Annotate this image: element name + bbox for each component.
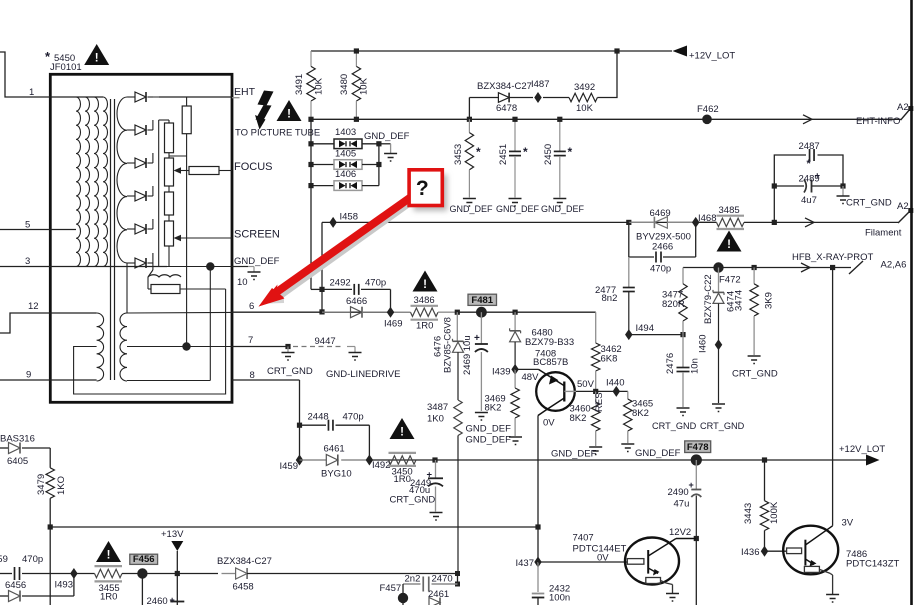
svg-text:3443: 3443 — [743, 503, 754, 524]
svg-text:3: 3 — [25, 256, 30, 267]
junction — [354, 117, 359, 122]
svg-text:6405: 6405 — [7, 456, 28, 467]
warning triangle (F472) — [717, 231, 742, 252]
svg-text:12V2: 12V2 — [669, 527, 691, 538]
svg-text:PDTC143ZT: PDTC143ZT — [846, 559, 900, 570]
svg-text:3K9: 3K9 — [764, 292, 775, 309]
svg-text:GND_DEF: GND_DEF — [635, 448, 681, 459]
F457 node — [402, 584, 404, 605]
svg-text:0V: 0V — [597, 553, 609, 564]
svg-text:1R0: 1R0 — [100, 592, 117, 603]
pin6 row to 3462 — [457, 311, 595, 313]
transformer T5450 outline — [50, 74, 232, 402]
arrow +12V_LOT (bottom) — [866, 455, 880, 466]
svg-text:2448: 2448 — [308, 412, 329, 423]
spark gap left rail — [310, 119, 312, 289]
red question box — [414, 175, 448, 212]
svg-text:7407: 7407 — [573, 533, 594, 544]
sheet connector A2 (EHT-INFO) — [901, 109, 911, 121]
svg-text:+12V_LOT: +12V_LOT — [839, 444, 885, 455]
svg-text:F481: F481 — [471, 295, 493, 306]
svg-text:6478: 6478 — [496, 103, 517, 114]
diode 6456 — [0, 595, 9, 597]
resistor 3485 — [696, 221, 717, 223]
row to 2470 — [247, 573, 458, 575]
svg-text:+12V_LOT: +12V_LOT — [689, 51, 735, 62]
gnd-def tap wire — [167, 266, 232, 268]
svg-text:?: ? — [416, 177, 429, 200]
svg-text:CRT_GND: CRT_GND — [846, 198, 892, 209]
filament wire right — [774, 221, 898, 223]
svg-text:3491: 3491 — [294, 74, 305, 95]
primary winding — [50, 96, 103, 98]
svg-text:Filament: Filament — [865, 228, 902, 239]
svg-text:*: * — [476, 145, 481, 159]
7486 collector wire — [832, 268, 834, 526]
resistor 3462 6K8 — [595, 312, 597, 343]
svg-text:3479: 3479 — [36, 474, 47, 495]
node I469 — [387, 307, 395, 318]
junction — [432, 457, 437, 462]
svg-text:GND_DEF: GND_DEF — [466, 424, 512, 435]
CRT_GND (pin7) — [285, 344, 290, 349]
svg-text:3474: 3474 — [734, 290, 745, 311]
resistor 3453 — [468, 119, 470, 132]
EHT rectifier diodes — [127, 96, 135, 98]
EHT bottom winding — [148, 275, 181, 277]
svg-text:!: ! — [107, 550, 111, 562]
svg-text:8K2: 8K2 — [570, 413, 587, 424]
svg-text:BC857B: BC857B — [533, 357, 568, 368]
svg-text:GND_DEF: GND_DEF — [551, 449, 597, 460]
pin 1 wire — [0, 52, 50, 97]
node 50V junction — [593, 389, 598, 394]
pin 5 wire — [0, 229, 76, 231]
F472 node — [713, 262, 723, 272]
diode 6458 BZX384-C27 — [218, 573, 236, 575]
node I459 — [296, 455, 304, 466]
capacitor 2459 470p — [0, 573, 12, 575]
svg-text:!: ! — [727, 239, 731, 251]
main bus (EHT-INFO) — [311, 118, 901, 120]
EHT output wire — [159, 96, 232, 98]
svg-text:I469: I469 — [384, 319, 403, 330]
junction — [308, 141, 313, 146]
svg-text:10K: 10K — [359, 77, 370, 95]
svg-text:HFB_X-RAY-PROT: HFB_X-RAY-PROT — [792, 252, 873, 263]
node I460 — [715, 339, 723, 350]
svg-text:8: 8 — [250, 370, 255, 381]
svg-text:GND_DEF: GND_DEF — [466, 435, 512, 446]
screen wiper — [174, 235, 182, 241]
pin 6 interior wire — [127, 311, 232, 314]
transistor 7407 PDTC144ET — [625, 538, 679, 585]
capacitor 2476 10n — [682, 335, 684, 367]
resistor 3469 8K2 — [514, 369, 516, 388]
capacitor 2469 10u — [480, 312, 482, 344]
svg-text:1R0: 1R0 — [416, 321, 433, 332]
diode 6405 BAS316 — [0, 447, 9, 449]
warning triangle (3455) — [96, 541, 121, 562]
CRT_GND (6474) — [718, 345, 720, 403]
svg-text:6466: 6466 — [346, 296, 367, 307]
junction — [626, 220, 631, 225]
bleeder resistor top — [182, 106, 191, 134]
svg-text:GND_DEF: GND_DEF — [450, 204, 494, 214]
svg-text:6K8: 6K8 — [601, 354, 618, 365]
pin 12 wire — [0, 313, 97, 333]
svg-text:3487: 3487 — [427, 402, 448, 413]
arrow +12V_LOT — [673, 46, 688, 57]
spark gap 1406 — [311, 185, 334, 187]
12V2 junction — [694, 536, 699, 541]
gnd row riser — [209, 267, 211, 381]
transistor 7408 BC857B — [515, 368, 538, 370]
node I436 — [761, 546, 769, 557]
svg-text:!: ! — [400, 427, 404, 439]
resistor 3474 3K9 — [752, 265, 757, 270]
svg-text:GND_DEF: GND_DEF — [234, 256, 280, 267]
svg-text:1: 1 — [29, 87, 34, 98]
svg-text:CRT_GND: CRT_GND — [652, 421, 697, 431]
junction — [354, 48, 359, 53]
resistor 3443 100K — [762, 457, 767, 462]
svg-text:BYG10: BYG10 — [321, 469, 352, 480]
resistor 3477 820R — [682, 268, 684, 284]
svg-text:3486: 3486 — [414, 295, 435, 306]
svg-text:GND-LINEDRIVE: GND-LINEDRIVE — [326, 369, 400, 380]
transistor 7486 PDTC143ZT — [765, 550, 787, 552]
svg-text:CRT_GND: CRT_GND — [267, 366, 313, 377]
svg-text:I439: I439 — [492, 367, 511, 378]
svg-text:+: + — [474, 333, 480, 344]
svg-text:5: 5 — [25, 220, 30, 231]
svg-text:+: + — [689, 480, 694, 490]
svg-text:2490: 2490 — [668, 487, 689, 498]
svg-text:BZX79-C22: BZX79-C22 — [703, 274, 714, 324]
svg-text:470p: 470p — [650, 264, 671, 275]
GND-LINEDRIVE ground — [347, 346, 355, 348]
resistor 3479 1K0 — [49, 448, 51, 468]
svg-text:100n: 100n — [549, 593, 570, 604]
pin 6 row wire — [232, 311, 411, 313]
diode 6466 — [322, 311, 351, 313]
svg-text:I436: I436 — [741, 547, 760, 558]
svg-text:I458: I458 — [340, 212, 359, 223]
interior loop wire — [74, 289, 226, 394]
svg-text:F462: F462 — [697, 104, 719, 115]
svg-text:1K0: 1K0 — [427, 414, 444, 425]
F456 node — [137, 568, 147, 578]
svg-text:2469 10u: 2469 10u — [462, 335, 473, 375]
svg-text:470p: 470p — [343, 412, 364, 423]
resistor 3455 1R0 — [74, 573, 95, 575]
svg-text:I437: I437 — [516, 558, 535, 569]
svg-text:6458: 6458 — [233, 582, 254, 593]
svg-text:CRT_GND: CRT_GND — [732, 369, 778, 380]
svg-text:1403: 1403 — [335, 127, 356, 138]
node pin7 — [182, 342, 190, 350]
zener 6480 BZX79-B33 — [514, 312, 516, 331]
svg-text:+13V: +13V — [161, 529, 184, 540]
svg-text:10K: 10K — [314, 77, 325, 95]
svg-text:470p: 470p — [22, 554, 43, 565]
svg-text:I440: I440 — [606, 378, 625, 389]
svg-text:*: * — [807, 158, 812, 170]
focus/screen divider chain — [165, 123, 174, 153]
svg-text:*: * — [523, 145, 528, 159]
cap 2448 branch — [297, 423, 302, 428]
svg-text:!: ! — [95, 53, 99, 65]
resistor 3492 — [543, 97, 569, 99]
node I468 — [692, 217, 700, 228]
capacitor 2460 — [170, 601, 184, 603]
spark gap ground — [379, 143, 391, 145]
7408 collector wire — [537, 416, 539, 528]
svg-text:1R0: 1R0 — [394, 474, 411, 485]
svg-text:7: 7 — [248, 335, 253, 346]
junction — [308, 117, 313, 122]
svg-text:1KO: 1KO — [56, 476, 67, 495]
capacitor 2449 470u — [435, 460, 437, 478]
svg-text:8K2: 8K2 — [485, 403, 502, 414]
diode 6478 BZX384-C27 — [468, 98, 470, 120]
svg-text:2492: 2492 — [330, 278, 351, 289]
svg-text:6456: 6456 — [5, 580, 26, 591]
pin 3 wire — [0, 266, 167, 268]
F481 node — [476, 307, 487, 318]
capacitor 2466 470p — [628, 222, 630, 257]
svg-text:470p: 470p — [365, 278, 386, 289]
junction — [557, 117, 562, 122]
focus wiper — [174, 167, 182, 173]
svg-text:EHT: EHT — [234, 86, 256, 98]
svg-text:BZX79-B33: BZX79-B33 — [525, 337, 574, 348]
+13V feed — [171, 541, 183, 551]
svg-text:459: 459 — [0, 554, 8, 565]
resistor 3487 1K0 — [454, 400, 462, 436]
svg-text:I460: I460 — [698, 335, 709, 354]
svg-text:I493: I493 — [55, 580, 74, 591]
svg-text:3485: 3485 — [719, 205, 740, 216]
svg-text:A2: A2 — [897, 102, 909, 113]
sheet connector A2,A6 — [849, 261, 863, 274]
svg-text:BZX384-C27: BZX384-C27 — [477, 81, 532, 92]
svg-text:10K: 10K — [576, 103, 594, 114]
capacitor 2461 2n2 — [403, 583, 421, 585]
svg-text:8n2: 8n2 — [602, 293, 618, 304]
pin 7 wire — [232, 346, 288, 348]
junction — [319, 309, 324, 314]
svg-text:3V: 3V — [842, 518, 854, 529]
junction — [614, 48, 619, 53]
svg-text:48V: 48V — [522, 372, 540, 383]
pin 7 interior wire — [127, 346, 232, 348]
node I440 — [596, 390, 628, 392]
diode 6451 (partial) — [429, 598, 440, 608]
node I493 — [70, 568, 78, 579]
junction — [467, 117, 472, 122]
cap 2492 branch — [322, 288, 352, 290]
capacitor 2489 4u7 — [774, 185, 804, 187]
svg-text:4u7: 4u7 — [801, 195, 817, 206]
capacitor 2490 47u — [695, 460, 697, 490]
svg-text:6469: 6469 — [650, 208, 671, 219]
svg-text:9: 9 — [26, 370, 31, 381]
capacitor 2487 — [774, 155, 806, 186]
I437 to 7407 base — [538, 561, 627, 563]
svg-text:RES: RES — [594, 392, 605, 412]
svg-text:F456: F456 — [133, 554, 155, 565]
capacitor 2450 — [559, 119, 561, 151]
F462 node — [702, 115, 712, 125]
svg-text:GND_DEF: GND_DEF — [541, 204, 585, 214]
zener 6476 BZV85-C6V8 — [456, 312, 458, 341]
bottom +12V rail — [369, 459, 866, 461]
svg-text:I487: I487 — [531, 79, 550, 90]
lightning bolt (to picture tube) — [258, 91, 274, 106]
warning triangle (3486) — [413, 271, 438, 292]
pin 8 wire — [232, 379, 300, 381]
svg-text:SCREEN: SCREEN — [234, 229, 280, 241]
lower primary winding — [97, 313, 104, 381]
capacitor 2451 — [514, 119, 516, 151]
svg-text:GND_DEF: GND_DEF — [364, 131, 410, 142]
svg-text:JF0101: JF0101 — [50, 62, 82, 73]
CRT_GND (2489) — [842, 186, 844, 196]
svg-text:FOCUS: FOCUS — [234, 161, 273, 173]
warning triangle (picture tube) — [277, 100, 302, 121]
svg-text:BZX384-C27: BZX384-C27 — [217, 556, 272, 567]
zener 6474 BZX79-C22 — [718, 268, 720, 293]
lower secondary winding — [120, 313, 127, 381]
svg-text:820R: 820R — [662, 299, 685, 310]
capacitor 2470 label — [457, 574, 459, 585]
svg-text:!: ! — [287, 109, 291, 121]
HFB wire — [683, 267, 851, 269]
resistor 3491 — [310, 51, 312, 66]
x-ray rail — [48, 524, 53, 529]
red arrow shadow — [280, 201, 414, 297]
svg-text:I494: I494 — [636, 323, 655, 334]
svg-text:3480: 3480 — [339, 74, 350, 95]
svg-text:TO PICTURE TUBE: TO PICTURE TUBE — [235, 128, 320, 139]
spark gap right rail — [378, 144, 380, 186]
resistor 3450 1R0 — [389, 456, 417, 464]
node I437 — [537, 527, 539, 562]
chevron on bus — [803, 115, 812, 124]
node I492 — [366, 455, 374, 466]
svg-text:2476: 2476 — [665, 353, 676, 374]
svg-text:2466: 2466 — [652, 242, 673, 253]
red arrow — [274, 193, 416, 297]
top bus +12V_LOT — [311, 50, 672, 52]
pin 10 ground — [232, 266, 248, 268]
svg-text:BZV85-C6V8: BZV85-C6V8 — [443, 317, 454, 373]
svg-text:47u: 47u — [674, 499, 690, 510]
resistor 3480 — [355, 51, 357, 66]
svg-text:3492: 3492 — [574, 82, 595, 93]
svg-text:6461: 6461 — [324, 444, 345, 455]
svg-text:GND_DEF: GND_DEF — [496, 204, 540, 214]
svg-text:BAS316: BAS316 — [0, 434, 35, 445]
warning triangle (transformer) — [84, 44, 109, 65]
svg-text:I459: I459 — [280, 461, 299, 472]
svg-text:+: + — [815, 171, 821, 182]
dashed net 9447 — [293, 346, 341, 348]
node I458 — [329, 217, 337, 228]
svg-text:10n: 10n — [690, 358, 701, 374]
capacitor 2477 8n2 — [628, 257, 630, 288]
diode 6469 BYV29X-500 — [654, 217, 667, 229]
resistor 3460 8K2 — [595, 391, 597, 402]
capacitor 2432 100n — [537, 562, 539, 592]
resistor 3486 1R0 — [394, 311, 411, 313]
node I487 — [534, 92, 542, 103]
F456 label — [130, 554, 158, 564]
svg-text:2470: 2470 — [432, 574, 453, 585]
svg-text:EHT-INFO: EHT-INFO — [856, 116, 900, 127]
EHT secondary winding — [117, 97, 127, 263]
svg-text:2n2: 2n2 — [405, 574, 421, 585]
F478 node — [691, 454, 702, 465]
svg-text:F478: F478 — [687, 442, 709, 453]
svg-text:2460: 2460 — [147, 596, 168, 605]
node I439 — [511, 364, 518, 375]
svg-text:10: 10 — [237, 277, 248, 288]
core — [110, 99, 112, 380]
svg-text:12: 12 — [28, 301, 39, 312]
svg-text:6: 6 — [249, 301, 254, 312]
svg-text:1406: 1406 — [335, 169, 356, 180]
junction — [512, 117, 517, 122]
diode 6461 BYG10 — [300, 459, 327, 461]
spark gap 1403 — [311, 143, 334, 145]
node (gnd row) — [206, 262, 214, 270]
sheet connector A2 (Filament) — [898, 211, 911, 224]
svg-text:8K2: 8K2 — [632, 408, 649, 419]
filament wire — [322, 221, 717, 223]
wire 2487 block to filament — [773, 186, 775, 222]
svg-text:9447: 9447 — [315, 336, 336, 347]
F481 label — [468, 294, 497, 305]
wire I458 drop — [321, 222, 323, 289]
svg-text:0V: 0V — [543, 418, 555, 429]
svg-text:1405: 1405 — [335, 149, 356, 160]
svg-text:2487: 2487 — [799, 141, 820, 152]
svg-text:I492: I492 — [372, 460, 391, 471]
svg-text:3453: 3453 — [453, 144, 464, 165]
svg-text:2451: 2451 — [498, 144, 509, 165]
svg-text:A2: A2 — [897, 201, 909, 212]
svg-text:CRT_GND: CRT_GND — [700, 421, 745, 431]
svg-text:CRT_GND: CRT_GND — [390, 495, 436, 506]
svg-text:!: ! — [423, 279, 427, 291]
winding bottom wire — [127, 380, 210, 382]
svg-text:F457: F457 — [380, 583, 402, 594]
svg-text:+: + — [170, 595, 175, 605]
svg-text:A2,A6: A2,A6 — [881, 260, 907, 271]
resistor 3465 8K2 — [627, 391, 629, 399]
svg-text:100K: 100K — [769, 501, 780, 524]
warning triangle (3450) — [390, 418, 415, 439]
svg-text:*: * — [568, 145, 573, 159]
F478 label — [685, 441, 711, 453]
spark gap 1405 — [311, 164, 334, 166]
svg-text:50V: 50V — [577, 379, 595, 390]
sheet border — [910, 0, 913, 605]
node I494 — [625, 329, 633, 340]
